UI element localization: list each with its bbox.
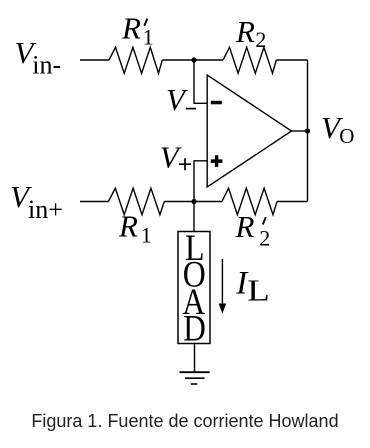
label R2 <box>235 14 266 52</box>
svg-text:L: L <box>247 272 269 307</box>
svg-text:in+: in+ <box>28 195 63 224</box>
wire LOAD to ground <box>194 344 196 373</box>
label IL <box>235 265 269 307</box>
svg-text:R: R <box>235 14 255 49</box>
wire node B to R'2 <box>194 201 222 203</box>
label R'2 <box>235 209 271 250</box>
svg-text:1: 1 <box>143 24 154 49</box>
svg-text:V: V <box>160 140 182 175</box>
wire node A to R2 <box>194 59 223 61</box>
wire op-amp output to node Vo <box>292 130 308 132</box>
resistor R'1 <box>109 47 162 73</box>
op-amp U1 inverting input marker <box>211 101 222 105</box>
svg-text:D: D <box>183 307 206 348</box>
svg-text:1: 1 <box>141 222 152 247</box>
wire R'2 to output net <box>277 201 308 203</box>
wire R1 to node B <box>164 201 194 203</box>
label Vo <box>321 110 354 148</box>
current arrow IL <box>219 259 227 314</box>
input label Vin+ <box>10 179 63 224</box>
junction node B (V+ net) <box>191 199 196 204</box>
op-amp U1 non-inverting input marker <box>211 155 223 167</box>
input label Vin- <box>15 35 62 79</box>
wire Vin- to R'1 <box>80 59 109 61</box>
label R1 <box>118 209 152 248</box>
label V- <box>166 82 196 117</box>
svg-text:2: 2 <box>259 226 270 251</box>
load Z1 (LOAD box) <box>178 227 210 348</box>
wire output net vertical <box>307 60 309 202</box>
ground <box>180 372 210 384</box>
svg-text:R: R <box>118 209 138 244</box>
junction node A (V- net) <box>191 57 196 62</box>
caption <box>0 412 370 431</box>
resistor R1 <box>108 188 164 215</box>
wire R'1 to node A <box>162 59 194 61</box>
resistor R'2 <box>222 188 277 215</box>
op-amp U1 <box>207 75 291 187</box>
wire R2 to output net <box>276 59 307 61</box>
svg-text:in-: in- <box>32 50 61 79</box>
wire node B to V+ input <box>194 161 207 202</box>
svg-text:O: O <box>339 124 354 148</box>
resistor R2 <box>223 47 276 73</box>
svg-text:R: R <box>121 11 141 46</box>
label R'1 <box>121 11 154 50</box>
wire Vin+ to R1 <box>80 201 108 203</box>
wire node B to LOAD <box>193 202 195 232</box>
svg-text:R: R <box>235 209 255 244</box>
junction node Vo <box>305 128 310 133</box>
svg-text:2: 2 <box>255 27 266 52</box>
label V+ <box>160 140 191 175</box>
svg-text:V: V <box>166 82 188 117</box>
wire node A to V- input <box>194 60 207 103</box>
